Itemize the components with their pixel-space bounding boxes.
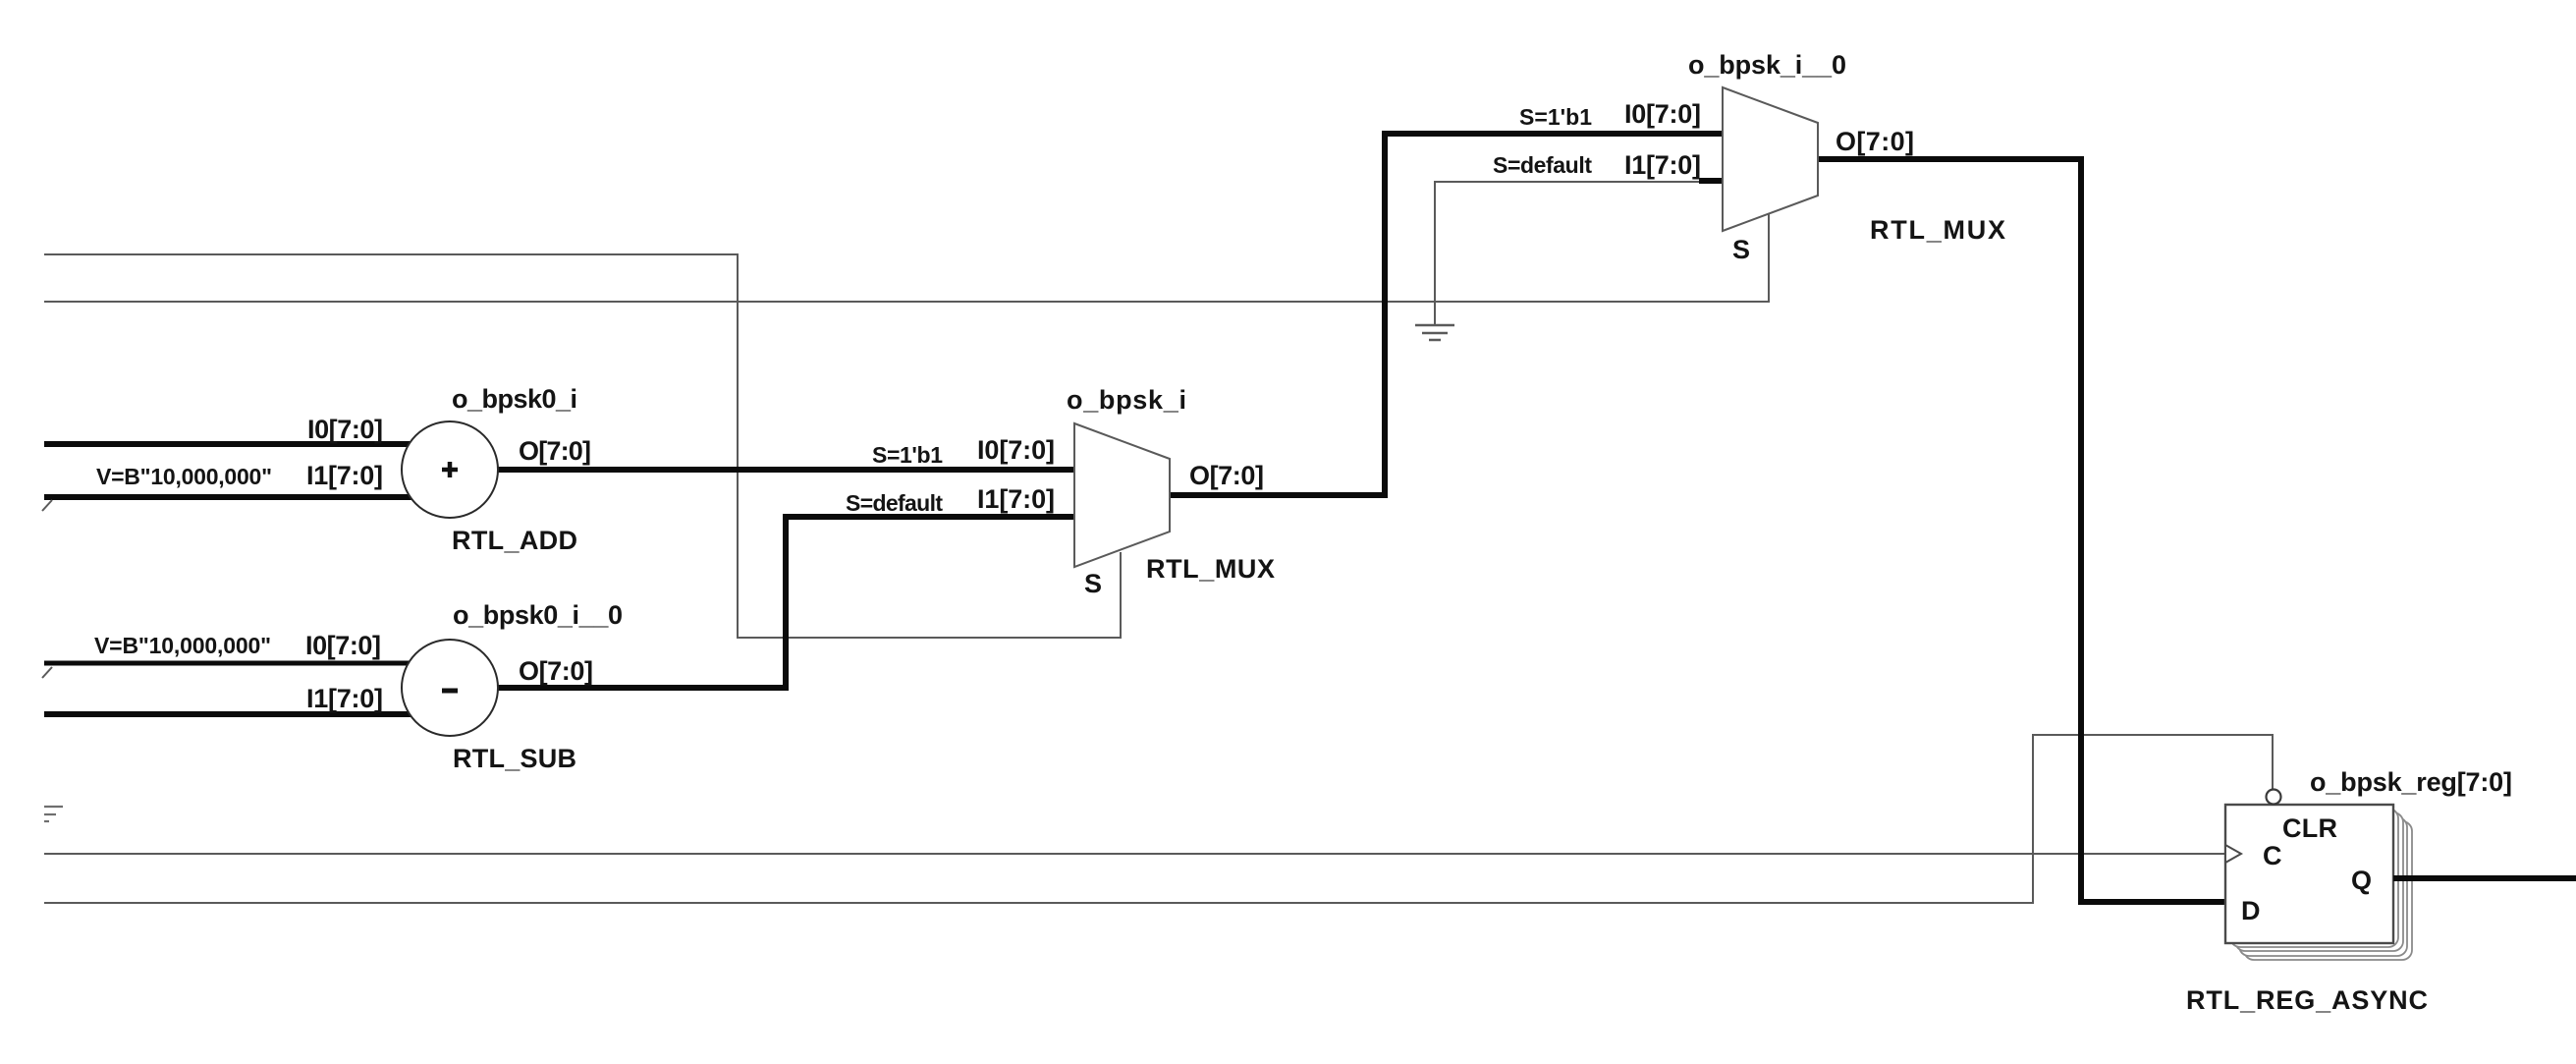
wire bus3 thick: subtractor I0 input (V=B"10,000,000") from left edge (44, 661, 422, 666)
svg-text:D: D (2241, 896, 2261, 925)
svg-text:S=1'b1: S=1'b1 (872, 442, 943, 468)
svg-text:RTL_MUX: RTL_MUX (1870, 215, 2005, 245)
svg-text:o_bpsk_i: o_bpsk_i (1067, 385, 1186, 415)
adder o_bpsk0_i (RTL_ADD) (96, 384, 591, 555)
wire bus4 thick: subtractor I1 input from left edge (44, 711, 422, 717)
subtractor o_bpsk0_i__0 (RTL_SUB) (94, 600, 623, 773)
wire net2 thin: S-input of mux o_bpsk_i__0 from left edge (44, 214, 1769, 302)
svg-text:S: S (1732, 235, 1750, 264)
svg-text:S: S (1084, 569, 1102, 598)
wire net1 thin: S-input of mux o_bpsk_i from left edge (44, 254, 1121, 638)
CLR bubble (2267, 790, 2281, 805)
clock chevron (2225, 845, 2241, 863)
off-page slash on adder I1 (42, 500, 52, 511)
svg-text:S=default: S=default (1493, 152, 1592, 178)
wire bus6 thick: subtractor O to mux o_bpsk_i I1 pin (471, 517, 1074, 688)
ground symbol GND1 (under mux o_bpsk_i__0 I1 net) (1415, 325, 1454, 340)
svg-text:o_bpsk0_i: o_bpsk0_i (452, 384, 577, 414)
svg-text:V=B"10,000,000": V=B"10,000,000" (94, 633, 271, 658)
register o_bpsk_reg[7:0] (RTL_REG_ASYNC) (2186, 767, 2512, 1015)
svg-text:RTL_REG_ASYNC: RTL_REG_ASYNC (2186, 985, 2428, 1015)
wire bus8 thick: mux o_bpsk_i__0 I1 pin stub (1699, 178, 1723, 184)
svg-text:O[7:0]: O[7:0] (1189, 461, 1264, 490)
svg-text:C: C (2263, 841, 2282, 870)
off-page slash on subtractor I0 (42, 667, 52, 678)
wire bus7 thick: mux o_bpsk_i O to mux o_bpsk_i__0 I0 pin (1170, 134, 1723, 495)
svg-text:I0[7:0]: I0[7:0] (1624, 99, 1701, 129)
ground symbol GND2 (left edge) (44, 807, 63, 821)
svg-text:I1[7:0]: I1[7:0] (306, 461, 383, 490)
svg-text:O[7:0]: O[7:0] (1836, 127, 1914, 156)
svg-text:I1[7:0]: I1[7:0] (977, 484, 1055, 514)
wire bus10 thick: register Q output to right edge (2393, 875, 2576, 881)
svg-text:V=B"10,000,000": V=B"10,000,000" (96, 464, 272, 489)
wire bus1 thick: adder I0 input from left edge (44, 441, 422, 447)
register body (2225, 805, 2393, 943)
svg-text:RTL_MUX: RTL_MUX (1146, 554, 1275, 584)
svg-text:I1[7:0]: I1[7:0] (306, 684, 383, 713)
svg-text:O[7:0]: O[7:0] (519, 436, 591, 466)
svg-text:S=default: S=default (846, 490, 943, 516)
wire bus5 thick: adder O to mux o_bpsk_i I0 pin (471, 467, 1074, 473)
svg-text:Q: Q (2351, 866, 2372, 895)
svg-text:CLR: CLR (2282, 813, 2337, 843)
wire net4 thin: clock line to register C pin (44, 853, 2225, 855)
register stack sheets (2230, 809, 2412, 960)
svg-text:S=1'b1: S=1'b1 (1519, 104, 1592, 130)
wire net5 thin: clear line to register CLR bubble (44, 735, 2273, 903)
wire bus9 thick: mux o_bpsk_i__0 O to register D pin (1818, 159, 2225, 902)
svg-text:I0[7:0]: I0[7:0] (305, 631, 381, 660)
svg-text:RTL_ADD: RTL_ADD (452, 526, 577, 555)
mux o_bpsk_i__0 (RTL_MUX) (1493, 50, 2005, 264)
mux o_bpsk_i (RTL_MUX) (846, 385, 1275, 598)
svg-text:O[7:0]: O[7:0] (519, 656, 593, 686)
svg-text:o_bpsk_reg[7:0]: o_bpsk_reg[7:0] (2310, 767, 2512, 797)
wire net3 thin: grounded I1 input of mux o_bpsk_i__0 (1435, 182, 1701, 324)
svg-text:o_bpsk0_i__0: o_bpsk0_i__0 (453, 600, 623, 630)
wire bus2 thick: adder I1 input (V=B"10,000,000") from left edge (44, 494, 422, 500)
svg-text:o_bpsk_i__0: o_bpsk_i__0 (1688, 50, 1846, 80)
svg-text:I0[7:0]: I0[7:0] (977, 435, 1055, 465)
svg-text:RTL_SUB: RTL_SUB (453, 744, 576, 773)
svg-text:I1[7:0]: I1[7:0] (1624, 150, 1701, 180)
svg-text:I0[7:0]: I0[7:0] (307, 415, 383, 444)
